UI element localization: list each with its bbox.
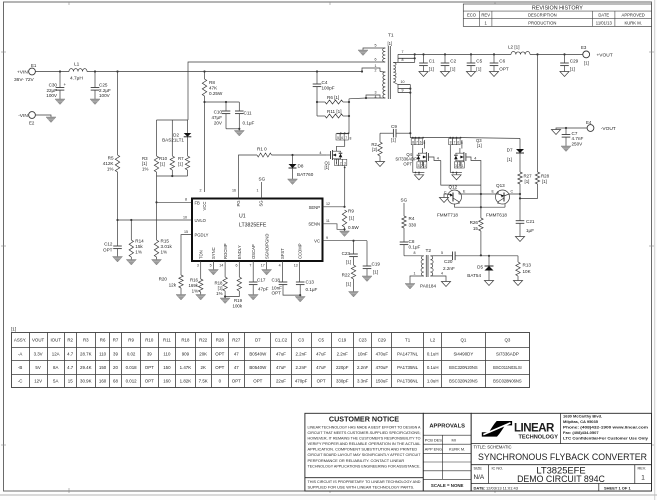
svg-text:2: 2 <box>421 164 423 168</box>
svg-text:VERIFY PROPER AND RELIABLE OPE: VERIFY PROPER AND RELIABLE OPERATION IN … <box>308 441 422 446</box>
svg-text:C29: C29 <box>378 338 387 343</box>
svg-text:Fax: (408)434-0507: Fax: (408)434-0507 <box>563 430 599 435</box>
svg-text:1%: 1% <box>161 249 168 254</box>
capacitor C8 <box>400 241 409 243</box>
svg-text:1: 1 <box>336 161 338 165</box>
svg-text:39: 39 <box>147 351 152 356</box>
capacitor C9 <box>392 129 394 138</box>
svg-text:2: 2 <box>458 164 460 168</box>
svg-text:15: 15 <box>184 230 188 234</box>
svg-text:[1]: [1] <box>525 179 530 184</box>
svg-text:2.2nF: 2.2nF <box>443 266 455 271</box>
svg-text:5A: 5A <box>53 378 58 383</box>
svg-text:11/01/13: 11/01/13 <box>596 20 613 25</box>
svg-text:OPT: OPT <box>145 365 154 370</box>
svg-text:C1: C1 <box>429 58 435 63</box>
wire SENN <box>323 224 345 230</box>
resistor R3 <box>154 156 158 172</box>
wire gate drive to Q12 <box>441 161 481 186</box>
resistor R2 <box>379 133 381 142</box>
svg-text:5: 5 <box>210 264 212 268</box>
capacitor C25 <box>94 72 96 88</box>
wire <box>205 101 240 103</box>
svg-text:CIRCUIT THAT MEETS CUSTOMER-SU: CIRCUIT THAT MEETS CUSTOMER-SUPPLIED SPE… <box>308 430 421 435</box>
svg-text:SIZE: SIZE <box>474 466 483 470</box>
svg-text:R10: R10 <box>145 338 154 343</box>
svg-text:OPT: OPT <box>145 378 154 383</box>
svg-text:0.1μF: 0.1μF <box>409 245 421 250</box>
svg-text:B0540W: B0540W <box>249 365 267 370</box>
revision history table <box>463 4 651 26</box>
svg-text:ECO: ECO <box>467 12 477 17</box>
svg-text:OPT: OPT <box>215 365 224 370</box>
svg-text:APPROVED: APPROVED <box>622 12 645 17</box>
svg-text:4: 4 <box>437 156 439 160</box>
svg-text:1.82K: 1.82K <box>180 378 192 383</box>
ground <box>340 231 350 237</box>
svg-text:1: 1 <box>424 164 426 168</box>
wire <box>348 99 350 134</box>
svg-text:6: 6 <box>457 141 459 145</box>
resistor R9 <box>342 210 346 227</box>
svg-text:CCOMP: CCOMP <box>297 243 302 259</box>
diode D7 <box>519 138 521 149</box>
capacitor C5 <box>470 54 472 63</box>
wire UVLO <box>118 219 193 221</box>
svg-text:470pF: 470pF <box>295 378 308 383</box>
transistor Q13 FMMT618 <box>496 190 510 204</box>
svg-text:SENN: SENN <box>308 222 320 227</box>
svg-text:E2: E2 <box>29 121 35 126</box>
svg-text:Q3: Q3 <box>504 338 510 343</box>
svg-text:1%: 1% <box>107 166 114 171</box>
svg-text:Q13: Q13 <box>496 183 505 188</box>
svg-text:R27: R27 <box>524 174 533 179</box>
wire snubber node <box>380 132 393 134</box>
ground <box>561 146 571 152</box>
svg-text:C8: C8 <box>409 239 415 244</box>
wire gate-drive winding output <box>409 93 411 134</box>
svg-text:D7: D7 <box>507 148 513 153</box>
resistor R4 <box>402 216 406 228</box>
svg-text:DATE: DATE <box>598 12 609 17</box>
svg-text:R4: R4 <box>409 216 415 221</box>
svg-text:13: 13 <box>294 264 298 268</box>
svg-text:47uF: 47uF <box>316 351 326 356</box>
svg-text:[1]: [1] <box>11 327 16 332</box>
svg-text:R9: R9 <box>348 209 354 214</box>
svg-text:C25: C25 <box>99 83 108 88</box>
diode D5 BAT54 <box>488 256 490 266</box>
svg-text:3: 3 <box>344 161 346 165</box>
svg-text:47: 47 <box>234 351 239 356</box>
svg-text:29.4K: 29.4K <box>80 365 92 370</box>
svg-text:47uF: 47uF <box>316 365 326 370</box>
svg-text:R18: R18 <box>181 338 190 343</box>
svg-text:15: 15 <box>68 378 73 383</box>
svg-text:9: 9 <box>402 88 404 92</box>
svg-text:VC: VC <box>314 239 320 244</box>
svg-text:[1]: [1] <box>429 66 434 71</box>
ground <box>419 72 428 77</box>
ground SGND/PGND <box>266 261 268 270</box>
svg-text:[1]: [1] <box>325 165 330 170</box>
svg-text:C12: C12 <box>104 241 113 246</box>
transistor Q4 Si7336ADP <box>412 137 414 139</box>
svg-text:REVISION HISTORY: REVISION HISTORY <box>532 5 583 11</box>
svg-text:28.7K: 28.7K <box>80 351 92 356</box>
svg-text:SUPPLIED FOR USE WITH LINEAR T: SUPPLIED FOR USE WITH LINEAR TECHNOLOGY … <box>308 484 415 489</box>
svg-text:OPT: OPT <box>403 161 412 166</box>
wire output rail <box>415 53 511 55</box>
inductor L1 <box>69 69 87 72</box>
svg-text:5V: 5V <box>35 365 40 370</box>
svg-text:L2: L2 <box>430 338 435 343</box>
svg-text:1630 McCarthy Blvd.: 1630 McCarthy Blvd. <box>563 414 602 419</box>
svg-text:VOUT: VOUT <box>32 338 45 343</box>
svg-text:SG: SG <box>259 177 266 182</box>
svg-text:100pF: 100pF <box>322 86 335 91</box>
capacitor C20 <box>452 252 454 261</box>
svg-text:14: 14 <box>219 264 223 268</box>
svg-text:4.7nF: 4.7nF <box>572 136 584 141</box>
svg-text:150uF: 150uF <box>376 378 389 383</box>
capacitor C23 <box>353 241 355 254</box>
svg-text:6: 6 <box>236 264 238 268</box>
transistor Q3 second MOSFET <box>449 137 451 139</box>
svg-text:[1]: [1] <box>542 179 547 184</box>
svg-text:4: 4 <box>279 264 281 268</box>
svg-text:12/03/13 11:01:43: 12/03/13 11:01:43 <box>486 485 519 490</box>
wire top rail to transformer winding <box>188 62 385 120</box>
capacitor C6 <box>493 54 495 63</box>
ground <box>152 260 162 266</box>
capacitor C1 <box>423 54 425 63</box>
svg-text:R26: R26 <box>470 220 479 225</box>
capacitor C18 <box>281 261 283 282</box>
svg-text:1%: 1% <box>216 291 222 296</box>
svg-text:110: 110 <box>163 351 171 356</box>
svg-text:R11: R11 <box>163 338 171 343</box>
svg-text:PERFORMANCE OR RELIABILITY. C: PERFORMANCE OR RELIABILITY. CONTACT LINE… <box>308 458 405 463</box>
ground <box>176 295 186 301</box>
svg-text:IOUT: IOUT <box>50 338 61 343</box>
svg-text:R3: R3 <box>83 338 89 343</box>
svg-text:12: 12 <box>326 202 330 206</box>
svg-text:SHEET 1 OF 1: SHEET 1 OF 1 <box>604 485 631 490</box>
svg-text:SYNCHRONOUS FLYBACK CONVERTER: SYNCHRONOUS FLYBACK CONVERTER <box>478 452 647 463</box>
Linear Technology logo <box>482 421 512 437</box>
capacitor C17 <box>252 261 254 282</box>
svg-text:1: 1 <box>414 272 416 276</box>
svg-text:4.7μH: 4.7μH <box>70 76 83 82</box>
svg-text:6: 6 <box>341 136 343 140</box>
svg-text:R9: R9 <box>128 338 134 343</box>
svg-text:BSC028N06NS: BSC028N06NS <box>493 378 522 383</box>
svg-text:7.5K: 7.5K <box>199 378 208 383</box>
svg-text:C30: C30 <box>49 83 58 88</box>
svg-text:C17: C17 <box>257 278 266 283</box>
svg-text:SG: SG <box>401 198 408 203</box>
svg-text:12A: 12A <box>52 351 60 356</box>
svg-text:BSC011N03LSI: BSC011N03LSI <box>493 365 522 370</box>
svg-text:C23: C23 <box>359 338 368 343</box>
svg-text:2: 2 <box>200 189 202 193</box>
svg-text:R2: R2 <box>67 338 73 343</box>
svg-text:PRODUCTION: PRODUCTION <box>528 20 556 25</box>
svg-text:Phone: (408)432-1900 www.li: Phone: (408)432-1900 www.linear.com <box>563 424 649 429</box>
approvals block <box>423 413 471 491</box>
ground <box>90 99 100 105</box>
svg-text:C2: C2 <box>450 58 456 63</box>
svg-text:C29: C29 <box>570 58 579 63</box>
ground <box>238 129 240 131</box>
svg-text:IC NO.: IC NO. <box>492 466 504 470</box>
svg-text:1μF: 1μF <box>526 228 534 233</box>
ground <box>513 281 522 286</box>
wire <box>459 191 481 194</box>
svg-text:BAT54: BAT54 <box>467 273 481 278</box>
T1 primary winding pins 5-6 <box>383 48 386 62</box>
svg-text:0.5W: 0.5W <box>348 225 359 230</box>
svg-text:6: 6 <box>420 141 422 145</box>
ground <box>362 276 372 282</box>
svg-text:39: 39 <box>113 351 118 356</box>
svg-text:R22: R22 <box>342 273 351 278</box>
svg-text:1: 1 <box>375 64 377 68</box>
svg-text:R11 [1]: R11 [1] <box>327 109 341 114</box>
svg-text:PGDLY: PGDLY <box>195 232 209 237</box>
ground <box>466 72 475 77</box>
svg-text:4: 4 <box>441 272 443 276</box>
svg-text:TON: TON <box>199 250 204 259</box>
wire gate drive rail <box>409 133 411 137</box>
svg-text:47pF: 47pF <box>258 287 269 292</box>
svg-text:R10: R10 <box>159 156 168 161</box>
svg-text:BSC320N20NS: BSC320N20NS <box>449 378 478 383</box>
resistor R10 <box>170 156 174 170</box>
svg-text:PCB DES.: PCB DES. <box>425 438 443 443</box>
svg-text:C9: C9 <box>391 124 397 129</box>
svg-text:T1: T1 <box>388 33 394 39</box>
svg-text:LT3825EFE: LT3825EFE <box>239 223 267 229</box>
svg-text:T1: T1 <box>405 338 411 343</box>
svg-text:0.1μF: 0.1μF <box>243 121 255 126</box>
svg-text:36V- 72V: 36V- 72V <box>14 77 35 83</box>
svg-text:1: 1 <box>462 164 464 168</box>
svg-text:R6 [1]: R6 [1] <box>327 95 339 100</box>
resistor R8 <box>204 72 206 80</box>
svg-text:+: + <box>64 82 67 87</box>
svg-text:220pF: 220pF <box>336 365 349 370</box>
svg-text:+VIN: +VIN <box>17 69 28 75</box>
svg-text:R28: R28 <box>216 338 225 343</box>
svg-text:C7: C7 <box>572 131 578 136</box>
ground <box>55 99 65 105</box>
svg-text:C21: C21 <box>526 219 535 224</box>
resistor R1 <box>257 153 272 157</box>
svg-text:THIS CIRCUIT IS PROPRIETARY TO: THIS CIRCUIT IS PROPRIETARY TO LINEAR TE… <box>308 479 421 484</box>
svg-text:3.3nF: 3.3nF <box>357 378 369 383</box>
wire base rail <box>455 204 506 207</box>
svg-text:APPLICATION. COMPONENT SUBSTI: APPLICATION. COMPONENT SUBSTITUTION AND … <box>308 447 418 452</box>
svg-text:[1]: [1] <box>570 66 575 71</box>
svg-text:412K: 412K <box>103 161 115 166</box>
svg-text:R7: R7 <box>113 338 119 343</box>
svg-text:C1,C2: C1,C2 <box>275 338 288 343</box>
svg-text:R15: R15 <box>161 239 170 244</box>
wire <box>556 128 587 130</box>
resistor R7 <box>185 156 189 170</box>
svg-text:8: 8 <box>414 251 416 255</box>
svg-text:169k: 169k <box>188 283 198 288</box>
ground <box>440 72 449 77</box>
svg-text:C4: C4 <box>322 80 328 85</box>
ground <box>299 295 301 296</box>
svg-text:3.3V: 3.3V <box>34 351 43 356</box>
ground <box>452 175 461 180</box>
ground <box>560 72 569 77</box>
svg-text:470uF: 470uF <box>376 351 389 356</box>
svg-text:PA1735NL: PA1735NL <box>397 365 418 370</box>
svg-text:7: 7 <box>453 141 455 145</box>
capacitor C13 <box>299 261 301 282</box>
svg-text:[1]: [1] <box>391 138 396 143</box>
svg-text:VCC: VCC <box>202 202 207 211</box>
capacitor C19 <box>366 241 368 266</box>
svg-text:TECHNOLOGY APPLICATIONS ENGINE: TECHNOLOGY APPLICATIONS ENGINEERING FOR … <box>308 463 421 468</box>
svg-text:Milpitas, CA 95035: Milpitas, CA 95035 <box>563 419 599 424</box>
ground <box>515 237 524 242</box>
title block <box>471 413 651 491</box>
svg-text:KURK M.: KURK M. <box>449 447 465 452</box>
svg-text:3: 3 <box>375 91 377 95</box>
T1 secondary winding pins 10-9 <box>398 84 410 86</box>
svg-text:R14: R14 <box>135 239 144 244</box>
T1 primary winding pins 1-2 <box>383 72 386 98</box>
wire <box>444 194 448 198</box>
svg-text:15: 15 <box>473 226 479 231</box>
svg-text:160: 160 <box>163 378 171 383</box>
resistor R19 <box>238 261 240 277</box>
terminal E1 +VIN <box>29 68 36 75</box>
svg-text:C5: C5 <box>318 338 324 343</box>
svg-text:C19: C19 <box>338 338 347 343</box>
svg-text:5: 5 <box>375 43 377 47</box>
svg-text:[1]: [1] <box>388 41 393 46</box>
svg-text:7: 7 <box>416 141 418 145</box>
svg-text:10: 10 <box>183 215 187 219</box>
wire +VIN rail <box>35 71 69 73</box>
ground <box>375 162 384 167</box>
svg-text:FMMT718: FMMT718 <box>437 213 458 218</box>
svg-text:1%: 1% <box>192 289 198 294</box>
svg-text:UVLO: UVLO <box>195 218 207 223</box>
svg-text:47: 47 <box>234 365 239 370</box>
svg-text:160: 160 <box>99 378 107 383</box>
svg-text:470uF: 470uF <box>376 365 389 370</box>
svg-text:2.2nF: 2.2nF <box>295 351 307 356</box>
svg-text:17: 17 <box>261 264 265 268</box>
svg-text:ROCMP: ROCMP <box>223 243 228 259</box>
svg-text:2.2μF: 2.2μF <box>99 88 111 93</box>
svg-text:10: 10 <box>401 80 405 84</box>
svg-text:[1]: [1] <box>160 162 165 167</box>
svg-text:C11: C11 <box>244 111 253 116</box>
svg-text:U1: U1 <box>239 214 246 220</box>
junctions <box>422 53 424 55</box>
resistor R20 <box>179 275 183 288</box>
svg-text:REV.: REV. <box>638 466 647 470</box>
svg-text:11: 11 <box>326 219 330 223</box>
svg-text:R16: R16 <box>190 278 199 283</box>
svg-text:PA1736NL: PA1736NL <box>397 378 418 383</box>
svg-text:[1]: [1] <box>507 157 512 162</box>
wire <box>430 255 446 257</box>
svg-text:47μF: 47μF <box>211 115 222 120</box>
resistor R13 <box>517 256 519 262</box>
svg-text:FB: FB <box>195 200 201 205</box>
svg-text:150: 150 <box>163 365 171 370</box>
svg-text:SFST: SFST <box>280 248 285 259</box>
capacitor C7 <box>565 128 567 135</box>
resistor R5 <box>117 72 119 156</box>
svg-text:OPT: OPT <box>317 378 326 383</box>
svg-text:-B: -B <box>18 365 22 370</box>
svg-text:DATE:: DATE: <box>474 485 486 490</box>
svg-text:DEMO CIRCUIT 894C: DEMO CIRCUIT 894C <box>517 474 605 484</box>
ground <box>224 297 226 299</box>
svg-text:T2: T2 <box>426 248 432 254</box>
ground <box>484 281 493 286</box>
ground <box>113 257 123 263</box>
svg-text:KURK M.: KURK M. <box>624 20 641 25</box>
svg-text:B0540W: B0540W <box>249 351 267 356</box>
svg-text:4.7: 4.7 <box>67 365 74 370</box>
svg-text:Si7336ADP: Si7336ADP <box>496 351 519 356</box>
svg-text:[1]: [1] <box>346 260 351 265</box>
resistor R11 <box>325 114 343 118</box>
svg-text:+VOUT: +VOUT <box>597 52 613 58</box>
resistor R6 <box>316 101 318 103</box>
node junctions on +VIN rail <box>59 70 61 72</box>
svg-text:8: 8 <box>350 136 352 140</box>
svg-text:250V: 250V <box>572 142 584 147</box>
svg-text:Q1: Q1 <box>460 338 466 343</box>
svg-text:R13: R13 <box>523 263 532 268</box>
svg-text:R20: R20 <box>159 276 168 281</box>
T1 secondary winding pins 7-8 <box>398 53 415 55</box>
capacitor C21 <box>519 198 521 220</box>
svg-text:[2]: [2] <box>372 147 377 152</box>
svg-text:12V: 12V <box>34 378 42 383</box>
svg-text:SENP: SENP <box>309 205 321 210</box>
svg-text:SGND/PGND: SGND/PGND <box>264 234 269 259</box>
svg-text:[1]: [1] <box>477 143 482 148</box>
svg-text:D5: D5 <box>477 265 483 270</box>
transistor Q12 FMMT718 <box>448 190 462 204</box>
svg-text:7: 7 <box>345 136 347 140</box>
svg-text:16: 16 <box>232 189 236 193</box>
svg-text:1%: 1% <box>135 249 142 254</box>
svg-text:R19: R19 <box>234 298 243 303</box>
svg-text:MI: MI <box>452 438 456 443</box>
wire gate drive to Q13 <box>474 161 481 186</box>
capacitor C29 <box>564 54 566 63</box>
capacitor C4 <box>316 72 318 85</box>
svg-text:SG: SG <box>259 200 264 206</box>
svg-text:[1]: [1] <box>349 215 354 220</box>
